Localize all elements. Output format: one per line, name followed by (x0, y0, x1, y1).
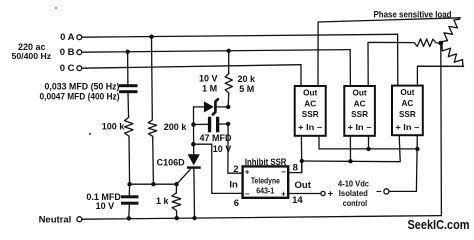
node gate mid (151, 182, 155, 186)
svg-text:Out: Out (400, 88, 414, 97)
resistor 200 k (148, 120, 157, 136)
wire SSR1 right to load top (318, 18, 460, 86)
svg-text:0 B: 0 B (60, 47, 75, 58)
svg-text:200 k: 200 k (164, 122, 188, 132)
terminal phase A (60, 32, 82, 43)
node on line A (200k tap) (149, 35, 153, 39)
svg-text:C106D: C106D (157, 157, 186, 167)
svg-text:+: + (328, 188, 334, 199)
terminal - control (376, 186, 389, 197)
capacitor 47 MFD (194, 117, 229, 133)
svg-text:10 V: 10 V (96, 201, 115, 211)
resistor 1 k (172, 193, 181, 211)
svg-text:0 A: 0 A (60, 32, 75, 43)
node cap left (191, 122, 196, 127)
svg-text:SSR: SSR (302, 110, 319, 119)
svg-text:1 M: 1 M (202, 83, 217, 93)
SSR module 1 (295, 86, 326, 136)
svg-text:−: − (245, 189, 250, 198)
wire line A (82, 34, 398, 37)
wire - control to bus1 (389, 136, 417, 192)
source label 220 ac 50/400 Hz (12, 42, 52, 61)
svg-text:Neutral: Neutral (39, 214, 72, 225)
svg-text:AC: AC (304, 100, 316, 109)
node gate left (127, 182, 131, 186)
load resistor horizontal (414, 39, 441, 47)
terminal + control (321, 188, 334, 199)
wire 20k node down to pin 2 (228, 124, 243, 173)
wire box2 plus (349, 136, 351, 161)
wire gate node to 0.1 MFD (128, 184, 130, 195)
resistor 100 k (125, 117, 134, 136)
svg-text:+ In −: + In − (395, 123, 419, 132)
svg-text:AC: AC (354, 100, 366, 109)
wire 100k to gate node (128, 136, 131, 184)
svg-text:0,0047 MFD (400 Hz): 0,0047 MFD (400 Hz) (40, 91, 120, 101)
wire box2 minus (368, 136, 370, 149)
wire pin 14 (288, 193, 321, 195)
node bus1 box2 (366, 147, 370, 151)
terminal phase B (60, 47, 82, 58)
wire 1k to neutral (176, 211, 178, 219)
wire bus plus (SSR In+) (300, 136, 302, 173)
node load star point (438, 41, 443, 46)
wire neutral line (82, 216, 442, 220)
svg-text:SSR: SSR (399, 110, 416, 119)
node pin6 tap (191, 142, 196, 147)
node on line B (20k tap) (227, 49, 231, 53)
wire pin 6 jog (193, 144, 242, 193)
wire node B2 down to 20k (228, 51, 230, 74)
thyristor C106D (177, 154, 201, 218)
svg-text:20 k: 20 k (238, 74, 257, 84)
node bus2 box2 (348, 159, 352, 163)
wire cap node to SCR anode (193, 125, 195, 155)
wire zener anode vertical (193, 107, 195, 125)
wire line C (82, 65, 301, 69)
svg-text:SSR: SSR (351, 110, 368, 119)
wire node B to filter cap (127, 52, 129, 84)
load resistor lower diagonal (441, 43, 464, 66)
svg-text:0,033 MFD (50 Hz): 0,033 MFD (50 Hz) (45, 81, 120, 91)
svg-text:+ In −: + In − (348, 123, 372, 132)
svg-text:10 V: 10 V (199, 73, 218, 83)
node on line B (filter cap tap) (125, 50, 129, 54)
node neutral 1k (175, 216, 179, 220)
wire cap to 100k (127, 93, 130, 117)
wire 200k to gate wire (152, 136, 155, 184)
terminal Neutral (39, 214, 82, 225)
svg-text:Isolated: Isolated (339, 188, 368, 198)
svg-text:100 k: 100 k (102, 122, 126, 132)
capacitor 0,033 MFD (119, 84, 138, 93)
wire line B to SSR2 left (349, 50, 351, 87)
svg-text:6: 6 (234, 198, 239, 209)
terminal phase C (60, 63, 82, 74)
wire gate to 1k (175, 184, 177, 193)
svg-text:+: + (281, 190, 286, 199)
node diode cathode (226, 105, 230, 109)
svg-text:4-10 Vdc: 4-10 Vdc (338, 178, 369, 188)
wire gate bus (130, 183, 177, 185)
wire SSR3 right to load bottom (417, 66, 463, 86)
svg-text:Phase sensitive load: Phase sensitive load (374, 10, 452, 20)
svg-text:643-1: 643-1 (256, 186, 274, 195)
wire bus2 horizontal (302, 135, 400, 161)
capacitor 0.1 MFD (121, 195, 138, 204)
wire 0.1 MFD to neutral (128, 205, 131, 219)
node neutral SCR (192, 216, 196, 220)
svg-text:Teledyne: Teledyne (251, 177, 280, 186)
SSR module 3 (392, 86, 423, 136)
load resistor upper diagonal (441, 18, 460, 43)
wire 20k to diode node (227, 93, 230, 107)
svg-text:0 C: 0 C (60, 63, 75, 74)
IC U1 Teledyne 643-1 (243, 166, 289, 198)
svg-text:5 M: 5 M (239, 84, 254, 94)
zener diode 10 V (194, 99, 229, 114)
svg-text:50/400 Hz: 50/400 Hz (12, 51, 52, 61)
wire star point to neutral (440, 43, 443, 216)
wire line C to SSR1 left (300, 65, 302, 87)
node neutral cap (127, 216, 131, 220)
svg-text:Out: Out (303, 89, 317, 98)
svg-text:47 MFD: 47 MFD (200, 133, 233, 143)
svg-text:−: − (281, 167, 286, 176)
svg-text:14: 14 (292, 195, 303, 206)
svg-text:In: In (229, 180, 238, 191)
svg-text:Out: Out (295, 180, 312, 191)
node gate right (174, 182, 178, 186)
SSR module 2 (344, 86, 375, 136)
svg-text:control: control (343, 198, 368, 208)
wire SSR2 right to load mid (368, 42, 414, 86)
svg-text:AC: AC (401, 99, 413, 108)
node cap right (226, 122, 230, 126)
svg-text:2: 2 (233, 164, 238, 175)
svg-text:SeekIC.com: SeekIC.com (408, 218, 470, 232)
wire line B (82, 50, 351, 53)
wire line A to SSR3 left (397, 34, 399, 86)
wire bus minus (SSR In-) (319, 136, 418, 149)
wire pin 8 (288, 161, 302, 173)
wire node A down to 200k (151, 37, 154, 120)
svg-text:1 k: 1 k (156, 196, 170, 206)
svg-text:Out: Out (353, 89, 367, 98)
svg-text:−: − (376, 186, 382, 197)
svg-text:+: + (245, 168, 250, 177)
node bus1 box3 (415, 147, 419, 151)
resistor 20 k / 5 M (225, 74, 232, 93)
node bus2 pin8 (300, 159, 304, 163)
svg-text:+ In −: + In − (298, 123, 322, 132)
